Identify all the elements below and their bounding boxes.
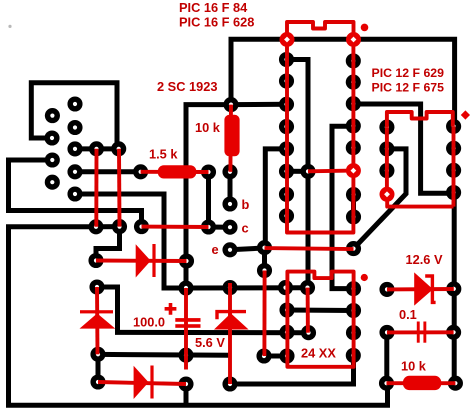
red dot marker top: [361, 24, 369, 32]
diode D4 triangle: [134, 366, 149, 399]
transistor collector pad c: [222, 220, 237, 235]
wire row171: pad(286.5,171.3) to pad(308,171.4): [287, 169, 309, 174]
pad (353.5,248.6): [346, 241, 361, 256]
pad (96,260.5): [88, 253, 103, 268]
transistor emitter pad e: [222, 242, 237, 257]
pad (230,287.6): [222, 280, 237, 295]
red node (353.4,170.6): [346, 163, 361, 178]
pad (287,356): [279, 348, 294, 363]
svg-text:e: e: [212, 242, 219, 257]
pad (287,332): [279, 325, 294, 340]
wire pads (353.5,194.6)-(353.5,216.9): [351, 195, 356, 217]
connector pad (75,194): [67, 186, 82, 201]
pad (186.5,261): [179, 253, 194, 268]
pad (287,310): [279, 302, 294, 317]
pad (231,105): [223, 97, 238, 112]
red wire diode D1 net row 260.5: [96, 259, 187, 263]
pad (96,227): [88, 219, 103, 234]
svg-text:c: c: [242, 220, 249, 235]
pad (353.5,288.7): [346, 281, 361, 296]
PIC16 socket right column pads x=353.3: [346, 53, 361, 224]
svg-text:2 SC 1923: 2 SC 1923: [157, 79, 217, 94]
svg-text:1.5 k: 1.5 k: [149, 147, 178, 162]
wire right rail pad(453.6,192.5) down to pad(455.4,383.2): [452, 193, 457, 384]
red wire row 248.2: [265, 248, 354, 249]
red dot marker near 24XX: [361, 274, 368, 281]
red bus left column PIC16 down to row 232.5: [287, 40, 353, 233]
pad (141.5,226.6): [134, 219, 149, 234]
connector pad (75,104): [67, 96, 82, 111]
wire row194: pad(75,194) to pad(186,288): [75, 194, 186, 288]
pad (119.5,226.6): [112, 219, 127, 234]
wire row355 left: pad(98,354.4) to zener net: [98, 352, 231, 358]
wire pad(286.5,149) left-down to pad(264.5,247.7): [265, 149, 286, 248]
pad (97,285.5): [89, 279, 104, 294]
svg-text:12.6 V: 12.6 V: [406, 252, 443, 267]
wire pad(208.5,172) down to pad(208.5,227): [206, 172, 211, 227]
red diamond marker right: [461, 110, 470, 119]
diode D4 cathode bar: [150, 366, 153, 399]
pad (308,171.4): [300, 164, 315, 179]
red wire x=119.5 header down: [117, 149, 121, 227]
red hook node(387,194.3) to right rail: [387, 194, 453, 206]
red node (353.5,39.5): [346, 32, 361, 47]
zener Z2 12.6V triangle: [414, 272, 433, 305]
wire pad(353.3,104) right-down to pad(453.6,193): [353, 104, 453, 193]
red wire 12.6V zener net: [387, 287, 454, 291]
red wire x=264.6 down: [262, 271, 266, 357]
pad (187,381.5): [178, 376, 193, 391]
artifact gray dot: [8, 25, 11, 28]
red wire 0.1 capacitor net: [387, 330, 454, 334]
svg-text:PIC 16 F 84: PIC 16 F 84: [179, 0, 248, 15]
PIC16 socket left column pads x=286.5: [279, 52, 294, 224]
zener D3 5.6V triangle (points up): [214, 313, 249, 329]
resistor 1.5k body: [158, 165, 197, 178]
wire node e to pad(264.5,248): [230, 248, 265, 250]
red wire zener D3 net x=230: [228, 283, 232, 384]
wire pad(264.5,247.7) to pad(264.5,270.5): [262, 248, 267, 271]
svg-text:PIC 12 F 675: PIC 12 F 675: [372, 81, 445, 95]
pad (387,332.4) 0.1 left: [379, 325, 394, 340]
svg-text:PIC 12 F 629: PIC 12 F 629: [372, 66, 445, 80]
red wire diode D2 net x=97.5: [95, 287, 99, 354]
red wire node(353.4,170.6) to pad(308,171.4): [308, 169, 353, 174]
wire ground rail: pad(96,227) left-down-bottom to pad(387,383): [9, 227, 388, 405]
wire row104: pad(231,105) to pad(286.5,104): [231, 102, 287, 107]
diode D1 cathode bar: [152, 244, 155, 277]
svg-text:PIC 16 F 628: PIC 16 F 628: [179, 15, 254, 30]
red PIC12 outline jumper: [387, 112, 453, 127]
pad (140.6,172): [133, 164, 148, 179]
pad (353.5,310.5): [346, 303, 361, 318]
pad (230,382.3): [222, 376, 237, 391]
pad (285.5,287.6): [278, 280, 293, 295]
red PIC12 right column down: [452, 126, 456, 206]
red wire diode D4 net row 381: [98, 382, 186, 384]
svg-text:100.0: 100.0: [133, 315, 165, 330]
wire junction pads 96-119 row227: [96, 224, 120, 229]
wire row288: pad(186,288) to pad(307.5,287.6): [186, 285, 308, 290]
pad (353.3,355.4): [346, 348, 361, 363]
connector pad (52,117): [45, 108, 60, 123]
red node (387,194.3): [380, 187, 395, 202]
capacitor 0.1 plates: [417, 322, 420, 343]
transistor base pad b: [222, 196, 237, 211]
zener D3 cathode bar with hook: [217, 312, 246, 320]
wire node c to pad(208.5,227): [209, 225, 231, 230]
diode D2 cathode bar: [80, 310, 113, 313]
pad (387,289.4) 12.6V left: [379, 282, 394, 297]
wire left rail upper: pad(52,161) to (8.5,210) to pad(141.5,227): [9, 160, 142, 227]
wire connector outline (top-left U shape): [31, 83, 117, 149]
pad (264,356): [256, 348, 271, 363]
pad (453.8,288.9) 12.6V right: [446, 281, 461, 296]
red PIC12 left column down to node: [385, 127, 389, 194]
pad (308.5,332.7): [301, 325, 316, 340]
wire pad(97,285.5) elbow to long row332: [97, 287, 309, 333]
pad (386.5,383.2) 10k left: [379, 376, 394, 391]
pad (230,172): [222, 164, 237, 179]
zener Z2 cathode bar with hooks: [425, 276, 435, 302]
pad (353.5,332.7): [346, 325, 361, 340]
red wire 10k resistor net x=231: [228, 105, 233, 172]
svg-text:b: b: [242, 197, 250, 212]
svg-text:0.1: 0.1: [399, 307, 417, 322]
pad (453.6,332.3) 0.1 right: [446, 325, 461, 340]
connector pad (52,138): [44, 130, 59, 145]
pad (264.5,270.5): [257, 263, 272, 278]
wire row310: pad(287,310) to pad(353.5,310.5): [287, 308, 354, 314]
red wire x=96.5 header down: [94, 149, 98, 227]
red wire 10k bottom net: [387, 381, 456, 385]
diode D1 triangle: [136, 244, 151, 277]
wire row356: pad(264,356) to pad(287,356): [264, 354, 287, 359]
red wire capacitor net x=186: [184, 288, 188, 370]
pad (455.4,383.2) 10k right: [448, 376, 463, 391]
pad (208.5,227): [201, 219, 216, 234]
RED WIRES: [96, 22, 455, 384]
red node (287,39.5): [280, 32, 295, 47]
wire pad(98,354) to pad(98,382): [96, 354, 101, 382]
connector pad (52,161): [45, 152, 60, 167]
wire pad(230,172) down to node b: [228, 172, 233, 204]
header pad (119,149.5): [111, 141, 126, 156]
wire row172 connector to 1.5k: [75, 169, 141, 174]
pad (208.5,172): [201, 164, 216, 179]
svg-text:24 XX: 24 XX: [301, 346, 336, 361]
PIC12 socket left column pads x=386.9: [379, 120, 394, 179]
svg-text:5.6 V: 5.6 V: [195, 335, 225, 350]
diode D2 triangle (points up): [80, 313, 116, 328]
red wire inside 24XX box: [306, 288, 310, 333]
header pad (96,149.5): [89, 141, 104, 156]
red wire row 226.6 pad(141.5) to pad(208.5): [142, 225, 209, 229]
wire pad(387,332.4) to pad(386.5,383.2): [384, 332, 389, 383]
red 24XX box outline: [287, 272, 353, 367]
connector pad (75,172): [67, 164, 82, 179]
wire top rail with stubs down: [231, 39, 455, 125]
PIC12 socket right column pads x=453.6: [446, 119, 461, 200]
pad (307.5,287.6): [300, 280, 315, 295]
resistor 10k bottom body: [403, 376, 441, 390]
RED COMPONENTS: [80, 115, 442, 399]
wire pad(186,384) down to ground rail: [184, 384, 189, 405]
svg-text:10 k: 10 k: [195, 120, 221, 135]
capacitor plus sign: [165, 303, 177, 315]
PADS: [44, 52, 463, 392]
wire pad(230,384) right then up into pad(353.3,355.4): [230, 355, 354, 384]
pad (186,288): [178, 280, 193, 295]
pad (98,354.3): [90, 347, 105, 362]
svg-text:10 k: 10 k: [401, 358, 427, 373]
connector pad (75,127): [67, 120, 82, 135]
wire elbow pad(286.5,59.5) right and down to pad(308,287.6): [287, 60, 309, 288]
resistor 10k body (vertical): [224, 115, 239, 157]
wire Z: pad(119.5,227) down-left to pad(96,260.5): [96, 227, 120, 261]
wire bracket pad(387,149) right-down-diagonal to pad(353.5,248.6): [354, 149, 407, 249]
red jumper top between nodes: [287, 22, 354, 40]
wire pad(353.3,126) left-down to pad(353.5,288.7): [332, 126, 354, 288]
pad (186,355): [178, 348, 193, 363]
connector pad (75,149.5): [67, 141, 82, 156]
pad (98,381.2): [90, 374, 105, 389]
red wire 1.5k net row 172: [141, 170, 209, 174]
electrolytic capacitor 100.0 plates: [175, 318, 200, 322]
wire row149 connector to header: [75, 146, 119, 151]
wire pad(231,105) left-down to pad(186,288): [186, 105, 231, 288]
pad (264.5,247.7): [257, 240, 272, 255]
connector pad (52,183): [45, 175, 60, 190]
